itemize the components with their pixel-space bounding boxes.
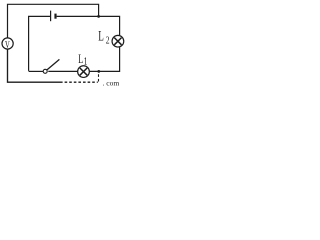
svg-text:L: L <box>98 29 104 45</box>
switch lever <box>47 59 60 70</box>
wire: inner loop left + top to battery <box>29 16 50 71</box>
lamp L2 <box>112 35 124 47</box>
wire: dashed bottom segment <box>60 81 98 83</box>
wire: switch left to inner loop corner <box>29 70 43 72</box>
wire: L2 bottom to corner, to node B and L1 <box>89 47 119 72</box>
wire: L1 left to switch <box>48 70 77 72</box>
battery: short thick plate (-) <box>54 14 56 19</box>
node A (junction dot top, battery+ to L2) <box>97 15 100 18</box>
svg-text:1: 1 <box>84 57 87 68</box>
svg-text:. com: . com <box>103 78 120 87</box>
svg-text:2: 2 <box>106 35 110 46</box>
battery: long plate (+) <box>50 11 52 22</box>
wire: dashed vertical up to node B <box>98 73 100 82</box>
wire: left vertical below voltmeter <box>8 49 61 82</box>
lamp L1 <box>78 66 90 78</box>
switch pivot <box>43 69 47 73</box>
svg-text:L: L <box>78 51 83 66</box>
voltmeter V <box>2 38 13 49</box>
node B (junction dot bottom, L1 to L2) <box>97 70 100 73</box>
wire: outer loop top (voltmeter branch) <box>8 4 99 38</box>
wire: battery to top-right corner, down to L2 <box>57 16 120 35</box>
